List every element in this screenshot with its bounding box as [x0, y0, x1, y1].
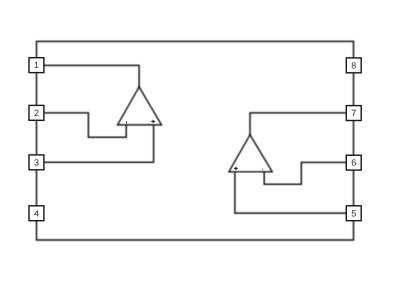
pin 4 box — [29, 206, 44, 221]
wire pin7 output net: op-amp B output to pin7 — [250, 113, 346, 135]
svg-text:7: 7 — [351, 108, 356, 118]
IC package outline U1 — [37, 41, 354, 240]
wire pin6 inverting input net of op-amp B — [264, 162, 346, 184]
svg-text:1: 1 — [34, 60, 39, 70]
svg-text:2: 2 — [34, 108, 39, 118]
plus label U1B — [234, 167, 238, 170]
plus label U1A — [151, 120, 155, 123]
pin 2 box — [29, 105, 44, 120]
minus label U1B (rotated dash) — [262, 169, 264, 171]
pin 8 box — [346, 58, 361, 73]
minus label U1A (rotated dash) — [126, 121, 128, 124]
wire pin2 inverting input net of op-amp A — [44, 113, 126, 137]
wire pin5 non-inverting input net of op-amp B — [235, 172, 346, 213]
wire pin1 output net: pin1 to op-amp A output — [44, 65, 139, 87]
op-amp U1B triangle — [229, 135, 272, 172]
pin 7 box — [346, 106, 361, 121]
wire pin3 non-inverting input net of op-amp A — [44, 125, 154, 162]
svg-text:8: 8 — [351, 60, 356, 70]
pin 3 box — [29, 155, 44, 170]
svg-text:6: 6 — [351, 158, 356, 168]
pin 1 box — [29, 58, 44, 73]
op-amp U1A triangle — [118, 87, 162, 125]
pin 6 box — [346, 155, 361, 170]
svg-text:4: 4 — [34, 208, 39, 218]
pin 5 box — [346, 206, 361, 221]
svg-text:5: 5 — [351, 208, 356, 218]
svg-text:3: 3 — [34, 157, 39, 167]
